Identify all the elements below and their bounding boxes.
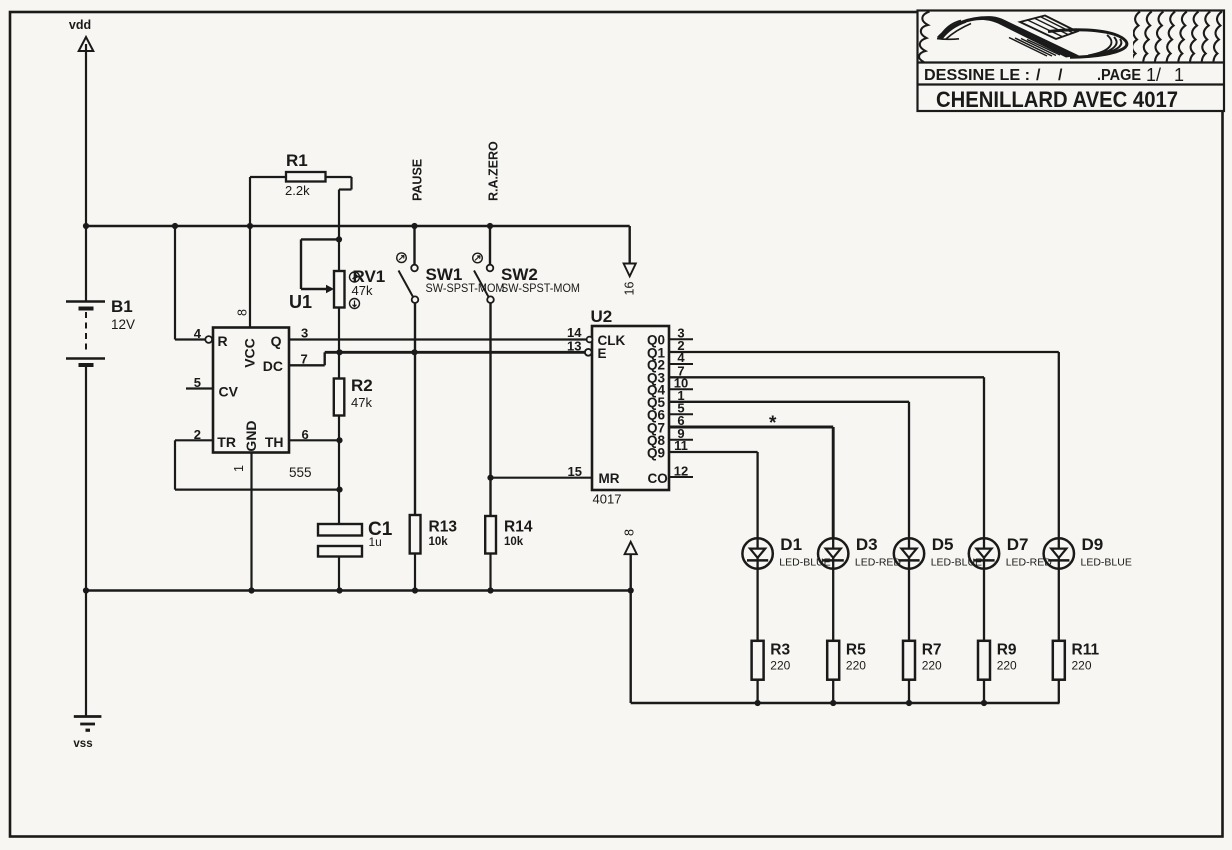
svg-text:R.A.ZERO: R.A.ZERO <box>487 141 501 201</box>
svg-text:3: 3 <box>301 326 308 341</box>
LED D5 LED-BLUE <box>894 538 924 568</box>
svg-text:DESSINE LE :: DESSINE LE : <box>924 67 1030 84</box>
svg-text:D9: D9 <box>1082 535 1104 554</box>
wire pin8 node to LED return rail <box>630 591 632 704</box>
U2 pin CLK (14) <box>587 337 593 343</box>
junction vdd/pin4 branch <box>172 223 178 229</box>
svg-text:220: 220 <box>770 659 790 673</box>
U2 pin E (13) bubble <box>585 349 592 356</box>
svg-text:U2: U2 <box>591 307 613 326</box>
junction RV1 wiper loop <box>336 236 342 242</box>
svg-text:.PAGE: .PAGE <box>1097 67 1141 84</box>
power connector pin 16 <box>629 226 631 264</box>
svg-text:*: * <box>769 413 777 434</box>
junction E-net/SW1 <box>411 349 417 355</box>
U2 pin CO (12) stub <box>669 476 693 478</box>
resistor R14 10k <box>485 516 496 554</box>
junction gnd/C1 <box>336 587 342 593</box>
potentiometer RV1 47k <box>301 238 339 240</box>
wire SW2 to R14 <box>489 303 491 516</box>
resistor R9 220 <box>978 641 990 680</box>
junction vdd/battery <box>83 223 89 229</box>
svg-text:Q9: Q9 <box>647 445 665 460</box>
svg-text:2.2k: 2.2k <box>285 183 310 198</box>
svg-text:R: R <box>218 333 228 349</box>
svg-text:1/: 1/ <box>1146 65 1161 85</box>
wire DC(7) jog to E net <box>289 364 325 366</box>
ground rail wire <box>86 589 631 591</box>
wire TR loop <box>175 439 213 441</box>
svg-text:220: 220 <box>1072 659 1092 673</box>
svg-text:LED-BLUE: LED-BLUE <box>779 556 830 568</box>
svg-text:B1: B1 <box>111 297 133 316</box>
junction gnd/pin8 <box>628 587 634 593</box>
U1 pin CV (5) stub <box>186 387 213 389</box>
svg-text:5: 5 <box>194 375 201 390</box>
svg-text:DC: DC <box>263 358 283 374</box>
svg-text:10k: 10k <box>504 536 524 548</box>
logo fan arcs <box>937 21 971 40</box>
svg-text:SW1: SW1 <box>426 265 463 284</box>
svg-text:1: 1 <box>232 465 246 472</box>
LED D1 LED-BLUE <box>742 538 772 568</box>
svg-text:Q: Q <box>271 333 282 349</box>
wire R2 to C1 node <box>338 416 340 525</box>
junction vdd/SW2 <box>487 223 493 229</box>
junction vdd/SW1 <box>411 223 417 229</box>
svg-text:SW-SPST-MOM: SW-SPST-MOM <box>501 283 580 295</box>
LED D9 LED-BLUE <box>1044 538 1074 568</box>
junction gnd/R13 <box>412 587 418 593</box>
svg-text:vdd: vdd <box>69 18 91 32</box>
resistor R13 10k <box>410 515 421 554</box>
junction gnd/battery <box>83 587 89 593</box>
junction vdd/VCC+R1 <box>247 223 253 229</box>
junction E-net/RV1-R2 <box>336 349 342 355</box>
svg-text:555: 555 <box>289 465 312 480</box>
svg-text:16: 16 <box>623 282 637 296</box>
junction R9/return rail <box>981 700 987 706</box>
svg-text:8: 8 <box>236 309 250 316</box>
svg-text:D3: D3 <box>856 535 878 554</box>
svg-text:E: E <box>598 346 607 361</box>
svg-text:/: / <box>1058 67 1063 84</box>
LED D7 LED-RED <box>969 538 999 568</box>
svg-text:R14: R14 <box>504 519 533 536</box>
wire VCC riser x250 <box>249 177 251 328</box>
U2 pin MR (15) <box>491 477 593 479</box>
svg-text:4: 4 <box>194 326 202 341</box>
svg-text:SW2: SW2 <box>501 265 538 284</box>
svg-text:220: 220 <box>997 659 1017 673</box>
logo left wave hatch <box>919 12 929 63</box>
svg-text:CO: CO <box>648 471 668 486</box>
svg-text:R9: R9 <box>997 642 1017 659</box>
svg-text:1: 1 <box>1174 65 1184 85</box>
svg-text:15: 15 <box>568 464 582 479</box>
junction gnd/555 pin1 <box>248 587 254 593</box>
op-amp/timer U1 555 box <box>213 328 289 453</box>
svg-text:12V: 12V <box>111 317 135 332</box>
svg-text:PAUSE: PAUSE <box>411 159 425 201</box>
svg-text:13: 13 <box>567 339 581 354</box>
svg-text:10k: 10k <box>429 536 449 548</box>
svg-text:vss: vss <box>73 738 92 750</box>
svg-text:1u: 1u <box>369 535 382 549</box>
LED D3 LED-RED <box>818 538 848 568</box>
svg-text:R1: R1 <box>286 151 308 170</box>
svg-text:GND: GND <box>243 420 259 451</box>
logo shadow hatch <box>1009 38 1060 57</box>
wire SW1 to R13 <box>414 303 416 515</box>
IC U2 4017 box <box>592 326 669 490</box>
junction TH/R2 <box>336 437 342 443</box>
U1 pin R (4) bubble <box>205 336 212 343</box>
logo hatch band <box>1020 16 1077 40</box>
junction SW2/MR <box>487 475 493 481</box>
wire vdd vertical to rail <box>85 44 87 226</box>
ground symbol vss <box>85 591 87 717</box>
resistor R3 220 <box>752 641 764 680</box>
svg-text:LED-BLUE: LED-BLUE <box>1081 556 1132 568</box>
wire RV1 to R2 <box>338 308 340 379</box>
junction R3/return rail <box>755 700 761 706</box>
svg-text:R13: R13 <box>429 519 458 536</box>
resistor R1 2.2k <box>250 176 286 178</box>
resistor R7 220 <box>903 641 915 680</box>
svg-text:U1: U1 <box>289 292 312 312</box>
junction R5/return rail <box>830 700 836 706</box>
svg-text:TH: TH <box>265 434 284 450</box>
resistor R5 220 <box>827 641 839 680</box>
svg-text:D1: D1 <box>780 535 802 554</box>
wire Q(3) to CLK(14) <box>289 338 587 340</box>
svg-text:47k: 47k <box>351 395 372 410</box>
svg-text:D7: D7 <box>1007 535 1029 554</box>
resistor R11 220 <box>1053 641 1065 680</box>
wire Q3 to LED column <box>669 376 984 378</box>
svg-text:VCC: VCC <box>242 338 258 368</box>
svg-text:47k: 47k <box>352 283 373 298</box>
svg-text:SW-SPST-MOM: SW-SPST-MOM <box>426 283 505 295</box>
wire E net (13) <box>325 351 586 354</box>
svg-text:R7: R7 <box>922 642 942 659</box>
svg-text:220: 220 <box>846 659 866 673</box>
title block frame <box>918 11 1225 112</box>
capacitor C1 1u <box>318 524 362 536</box>
svg-text:CV: CV <box>219 384 239 400</box>
wire vdd rail <box>86 225 630 227</box>
wire Q1 to LED column <box>669 351 1059 353</box>
wire Q5 to LED column <box>669 401 909 403</box>
logo swoosh hump and diagonal <box>937 16 1079 57</box>
svg-text:CHENILLARD AVEC 4017: CHENILLARD AVEC 4017 <box>936 87 1178 112</box>
svg-text:/: / <box>1036 67 1041 84</box>
svg-text:8: 8 <box>623 529 637 536</box>
svg-text:R2: R2 <box>351 376 373 395</box>
svg-text:TR: TR <box>217 434 236 450</box>
svg-text:4017: 4017 <box>593 492 622 507</box>
svg-text:220: 220 <box>922 659 942 673</box>
resistor R2 47k <box>334 379 345 416</box>
svg-text:D5: D5 <box>932 535 954 554</box>
svg-text:MR: MR <box>599 471 620 486</box>
wire R1 to RV1 <box>338 190 340 272</box>
svg-text:R3: R3 <box>770 642 790 659</box>
svg-text:R5: R5 <box>846 642 866 659</box>
junction TR loop/R2-C1 <box>336 487 342 493</box>
logo ellipse loop <box>1048 30 1127 58</box>
wire Q7 to LED column <box>669 426 833 429</box>
battery B1 <box>85 226 87 302</box>
junction R7/return rail <box>906 700 912 706</box>
wire pin4 branch x175 <box>174 226 176 340</box>
junction gnd/R14 <box>487 587 493 593</box>
svg-text:R11: R11 <box>1072 642 1100 659</box>
wire LED return rail <box>631 702 1060 704</box>
U1 pin GND (1) stub <box>250 453 252 591</box>
wire TH to R2 node <box>289 439 339 441</box>
wire Q9 to LED column <box>669 451 758 453</box>
